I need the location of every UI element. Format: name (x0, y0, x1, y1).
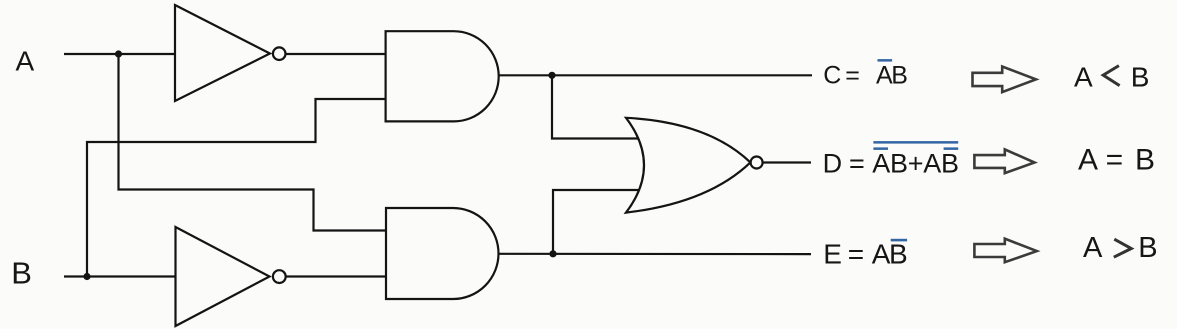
svg-text:A: A (1074, 62, 1093, 93)
bubble NOT1 (273, 47, 286, 60)
inverter NOT2 (176, 227, 270, 326)
node B junction dot (83, 273, 90, 280)
svg-text:B: B (1131, 62, 1150, 93)
svg-text:=: = (848, 239, 864, 270)
wire NOT2 output to AND2 (286, 275, 386, 277)
svg-text:=: = (845, 62, 860, 90)
inverter NOT1 (175, 5, 270, 101)
wire NOR output D (763, 161, 811, 163)
block arrow row D (974, 149, 1034, 173)
node A junction dot (115, 50, 122, 57)
wire A branch down (119, 54, 387, 231)
svg-text:B: B (11, 256, 32, 291)
svg-text:A: A (1078, 143, 1098, 176)
svg-text:=: = (1106, 143, 1124, 176)
node E junction dot (549, 250, 556, 257)
wire AND1 output C (499, 74, 812, 76)
svg-text:D: D (823, 149, 843, 179)
and-gate AND1 (386, 31, 499, 121)
svg-text:A: A (1083, 232, 1103, 264)
wire NOT1 output to AND1 (285, 53, 386, 55)
greater-than sign (1114, 239, 1132, 257)
wire AND2 to NOR bottom input (553, 190, 641, 254)
nor-gate U3 body (626, 118, 750, 213)
svg-text:B: B (889, 239, 908, 270)
svg-text:A: A (872, 239, 891, 270)
svg-text:C: C (823, 62, 841, 90)
svg-text:A: A (16, 46, 35, 77)
overbar over B (E row) (891, 239, 907, 242)
wire B branch up (87, 99, 386, 277)
svg-text:B: B (891, 62, 908, 90)
overbar over last B (D row) (944, 147, 959, 150)
node C junction dot (548, 72, 555, 79)
svg-text:E: E (823, 239, 842, 270)
svg-text:=: = (849, 149, 865, 179)
overbar over first A (D row) (873, 147, 888, 150)
block arrow row E (974, 239, 1036, 263)
wire input B (64, 275, 176, 277)
svg-text:B: B (1138, 232, 1157, 264)
overbar over A (C row) (878, 59, 893, 62)
svg-text:AB+AB: AB+AB (872, 149, 959, 179)
svg-text:B: B (1135, 143, 1155, 176)
less-than sign (1103, 66, 1119, 86)
block arrow row C (973, 67, 1037, 93)
and-gate AND2 (386, 208, 499, 299)
long overbar (D row) (873, 141, 958, 144)
wire AND1 to NOR top input (552, 75, 641, 138)
bubble NOT2 (273, 270, 286, 283)
wire input A (64, 53, 175, 55)
wire AND2 output E (499, 253, 812, 256)
bubble NOR output (751, 157, 763, 169)
